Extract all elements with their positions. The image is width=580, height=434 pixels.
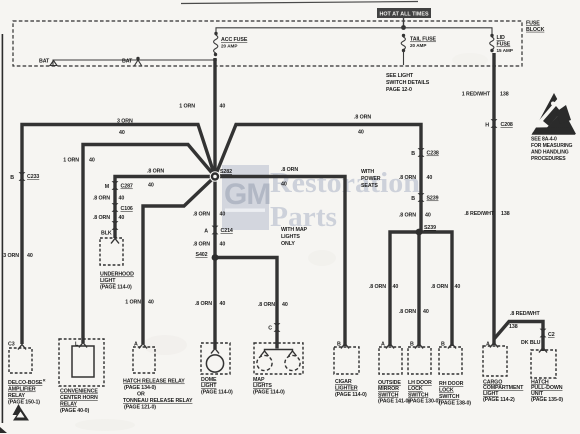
svg-text:40: 40 <box>427 175 433 181</box>
svg-text:(PAGE 150-1): (PAGE 150-1) <box>8 400 40 406</box>
svg-text:.8 RED/WHT: .8 RED/WHT <box>510 311 540 317</box>
svg-text:.8 ORN: .8 ORN <box>431 284 448 290</box>
svg-text:.8 ORN: .8 ORN <box>93 215 110 221</box>
Hatch pull-down unit box <box>531 350 556 378</box>
splice S402 <box>212 254 219 261</box>
svg-text:15 AMP: 15 AMP <box>497 48 513 53</box>
svg-text:S239: S239 <box>427 196 439 202</box>
svg-text:.8 ORN: .8 ORN <box>193 212 210 218</box>
svg-text:40: 40 <box>148 183 154 189</box>
wire 1 ORN to convenience center horn relay <box>83 145 215 344</box>
wire 1 RED/WHT from LID fuse to cargo compartment light <box>492 53 495 345</box>
svg-text:40: 40 <box>220 104 226 110</box>
connector to underhood light <box>112 221 119 230</box>
connector C233 <box>19 172 26 181</box>
svg-text:(PAGE 114-0): (PAGE 114-0) <box>335 392 367 398</box>
wire .8 ORN left arm to underhood light <box>115 177 215 239</box>
svg-text:DK BLU: DK BLU <box>521 340 541 346</box>
svg-text:40: 40 <box>220 242 226 248</box>
svg-text:.8 ORN: .8 ORN <box>399 213 416 219</box>
svg-text:B: B <box>441 342 445 348</box>
fuse block dashed border <box>13 21 522 66</box>
svg-text:M: M <box>105 184 110 190</box>
svg-text:40: 40 <box>119 196 125 202</box>
svg-text:C214: C214 <box>221 228 233 234</box>
svg-text:HOT AT ALL TIMES: HOT AT ALL TIMES <box>379 12 429 18</box>
svg-text:1 ORN: 1 ORN <box>125 300 141 306</box>
svg-text:C: C <box>268 326 272 332</box>
svg-text:BLOCK: BLOCK <box>526 27 545 33</box>
svg-text:DOME: DOME <box>201 377 217 383</box>
svg-text:S402: S402 <box>196 252 208 258</box>
svg-text:OR: OR <box>137 392 145 398</box>
connector C214 <box>212 226 219 235</box>
svg-text:LOCK: LOCK <box>439 388 454 394</box>
svg-text:ONLY: ONLY <box>281 241 295 247</box>
svg-text:C233: C233 <box>27 174 39 180</box>
svg-text:CIGAR: CIGAR <box>335 379 352 385</box>
svg-text:1 RED/WHT: 1 RED/WHT <box>462 92 491 98</box>
svg-text:S239: S239 <box>424 225 436 231</box>
svg-text:.8 ORN: .8 ORN <box>399 309 416 315</box>
wire .8 ORN right arm to cigar lighter <box>215 177 345 347</box>
wire .8 ORN branch S402 to map lights <box>215 258 277 349</box>
svg-text:BAT: BAT <box>122 59 133 65</box>
svg-text:HATCH RELEASE RELAY: HATCH RELEASE RELAY <box>123 379 185 385</box>
svg-text:B: B <box>411 151 415 157</box>
svg-text:ACC FUSE: ACC FUSE <box>221 37 248 43</box>
svg-text:SWITCH DETAILS: SWITCH DETAILS <box>386 80 430 86</box>
wire .8 ORN S239 to outside mirror switch <box>390 232 419 346</box>
svg-text:C106: C106 <box>121 206 133 212</box>
svg-text:RH DOOR: RH DOOR <box>439 381 464 387</box>
svg-text:40: 40 <box>425 213 431 219</box>
svg-text:40: 40 <box>358 130 364 136</box>
svg-text:3 ORN: 3 ORN <box>3 253 19 259</box>
wire 3 ORN to Delco-Bose amplifier relay <box>22 125 215 345</box>
svg-text:40: 40 <box>148 300 154 306</box>
svg-text:BLK: BLK <box>101 231 112 237</box>
svg-text:138: 138 <box>501 211 510 217</box>
svg-text:(PAGE 114-2): (PAGE 114-2) <box>483 397 515 403</box>
EDGES <box>0 2 418 434</box>
Convenience center horn relay outer box <box>59 339 104 386</box>
svg-text:1 ORN: 1 ORN <box>63 158 79 164</box>
svg-text:40: 40 <box>119 215 125 221</box>
svg-text:B: B <box>337 342 341 348</box>
svg-text:LH DOOR: LH DOOR <box>408 380 432 386</box>
svg-text:40: 40 <box>27 253 33 259</box>
svg-text:40: 40 <box>220 212 226 218</box>
svg-text:.8 ORN: .8 ORN <box>354 115 371 121</box>
svg-text:POWER: POWER <box>361 176 381 182</box>
svg-text:CONVENIENCE: CONVENIENCE <box>60 389 98 395</box>
svg-text:OUTSIDE: OUTSIDE <box>378 380 401 386</box>
svg-text:WITH MAP: WITH MAP <box>281 227 308 233</box>
svg-text:C238: C238 <box>427 151 439 157</box>
ESD warning symbol small <box>13 404 25 415</box>
Cigar lighter box <box>334 347 359 374</box>
svg-text:CENTER HORN: CENTER HORN <box>60 395 98 401</box>
svg-text:(PAGE 114-0): (PAGE 114-0) <box>100 285 132 291</box>
svg-text:B: B <box>410 342 414 348</box>
svg-text:.8 ORN: .8 ORN <box>399 175 416 181</box>
wire thin bus to LID fuse <box>216 28 492 34</box>
connector C238 <box>418 148 425 157</box>
svg-text:.8 ORN: .8 ORN <box>281 167 298 173</box>
dome light lamp <box>206 355 223 372</box>
page edge artifact left line <box>1 34 3 423</box>
svg-text:FUSE: FUSE <box>497 42 511 48</box>
WATERMARK <box>222 165 420 233</box>
svg-text:FOR MEASURING: FOR MEASURING <box>531 143 573 149</box>
svg-text:40: 40 <box>455 284 461 290</box>
Outside mirror switch box <box>379 347 402 374</box>
wire .8 ORN down through C214 and S402 to dome light <box>213 177 216 350</box>
svg-text:AND HANDLING: AND HANDLING <box>531 150 569 156</box>
Hatch release relay box <box>133 347 155 373</box>
svg-text:40: 40 <box>423 309 429 315</box>
wire 1 ORN from ACC fuse to splice S282 <box>213 58 216 177</box>
svg-text:LID: LID <box>497 35 506 41</box>
svg-text:.8 ORN: .8 ORN <box>258 302 275 308</box>
svg-text:AMPLIFIER: AMPLIFIER <box>8 387 36 393</box>
svg-text:FUSE: FUSE <box>526 20 540 26</box>
svg-text:20 AMP: 20 AMP <box>410 43 426 48</box>
svg-text:(PAGE 130-0): (PAGE 130-0) <box>408 399 440 405</box>
svg-text:138: 138 <box>509 324 518 330</box>
svg-text:GM: GM <box>224 178 270 211</box>
Delco-Bose amplifier relay box <box>9 348 32 373</box>
svg-text:.8 ORN: .8 ORN <box>93 196 110 202</box>
svg-text:TAIL FUSE: TAIL FUSE <box>410 37 437 43</box>
wire 1 ORN to hatch release relay <box>143 177 215 345</box>
svg-text:SEE LIGHT: SEE LIGHT <box>386 73 414 79</box>
junction ACC fuse to BAT bus <box>213 58 217 62</box>
svg-text:B: B <box>10 175 14 181</box>
svg-text:C2: C2 <box>548 332 555 338</box>
Dome light box <box>201 343 230 374</box>
svg-text:(PAGE 141-0): (PAGE 141-0) <box>378 399 410 405</box>
svg-text:C287: C287 <box>121 184 133 190</box>
svg-text:.8 ORN: .8 ORN <box>369 284 386 290</box>
svg-text:.8 ORN: .8 ORN <box>193 242 210 248</box>
svg-text:.8 ORN: .8 ORN <box>147 169 164 175</box>
svg-text:3 ORN: 3 ORN <box>117 119 133 125</box>
Cargo compartment light box <box>483 346 507 376</box>
svg-text:.8 RED/WHT: .8 RED/WHT <box>464 211 494 217</box>
svg-text:BAT: BAT <box>39 59 50 65</box>
svg-text:40: 40 <box>220 301 226 307</box>
HOT AT ALL TIMES box <box>377 8 431 18</box>
svg-text:(PAGE 114-0): (PAGE 114-0) <box>201 389 233 395</box>
wire .8 ORN S239 to LH door lock switch <box>417 232 420 346</box>
svg-text:40: 40 <box>282 302 288 308</box>
svg-text:(PAGE 135-0): (PAGE 135-0) <box>531 397 563 403</box>
svg-text:40: 40 <box>119 130 125 136</box>
svg-text:138: 138 <box>500 92 509 98</box>
svg-text:S282: S282 <box>220 169 232 175</box>
Convenience center horn relay inner box <box>72 346 94 377</box>
svg-text:RELAY: RELAY <box>8 393 26 399</box>
fuse ACC FUSE 20 AMP <box>214 32 217 35</box>
svg-text:40: 40 <box>89 158 95 164</box>
fuse LID FUSE 15 AMP <box>490 34 493 37</box>
svg-text:MAP: MAP <box>253 377 265 383</box>
RH door lock switch box <box>439 347 462 374</box>
LH door lock switch box <box>408 347 431 374</box>
svg-text:DELCO-BOSE: DELCO-BOSE <box>8 380 43 386</box>
connector C on map lights wire <box>274 323 281 332</box>
ESD warning symbol <box>532 93 576 134</box>
BOXES <box>9 238 556 421</box>
svg-text:(PAGE 40-0): (PAGE 40-0) <box>60 408 89 414</box>
connector C2 <box>540 329 547 338</box>
connector C106 <box>112 203 119 212</box>
page edge artifact top line <box>181 2 418 4</box>
splice S282 <box>210 171 221 182</box>
wire BAT bus <box>53 60 215 66</box>
svg-text:WITH: WITH <box>361 169 374 175</box>
svg-text:MIRROR: MIRROR <box>378 386 399 392</box>
connector C287 <box>112 181 119 190</box>
GM Restoration Parts watermark logo box <box>222 165 269 230</box>
svg-text:A: A <box>204 229 208 235</box>
svg-text:20 AMP: 20 AMP <box>221 44 237 49</box>
wire .8 ORN upper branch to C238 and splice S239 <box>215 125 421 233</box>
svg-text:PAGE 12-0: PAGE 12-0 <box>386 87 412 93</box>
svg-text:SWITCH: SWITCH <box>408 392 429 398</box>
svg-text:LIGHT: LIGHT <box>201 383 217 389</box>
svg-text:(PAGE 114-0): (PAGE 114-0) <box>253 389 285 395</box>
svg-text:H: H <box>485 123 489 129</box>
svg-text:SEATS: SEATS <box>361 183 378 189</box>
connector S239 upper <box>418 193 425 202</box>
svg-text:(PAGE 134-0): (PAGE 134-0) <box>124 385 156 391</box>
svg-text:TONNEAU RELEASE RELAY: TONNEAU RELEASE RELAY <box>123 398 193 404</box>
svg-text:.8 ORN: .8 ORN <box>195 301 212 307</box>
fuse TAIL FUSE 20 AMP <box>402 34 405 37</box>
wire .8 RED/WHT branch to hatch pull-down unit <box>494 322 543 352</box>
CONNECTORS <box>19 119 547 337</box>
page corner mark bottom-left <box>0 427 7 433</box>
svg-text:LIGHT: LIGHT <box>100 278 116 284</box>
Underhood light box <box>100 238 123 265</box>
svg-text:LOCK: LOCK <box>408 386 423 392</box>
node feed from HOT AT ALL TIMES <box>401 25 406 30</box>
Map lights box <box>254 343 303 374</box>
svg-text:(PAGE 121-0): (PAGE 121-0) <box>124 405 156 411</box>
splice S239 <box>416 229 423 236</box>
FUSEBLOCK <box>13 8 576 162</box>
svg-text:LIGHTER: LIGHTER <box>335 386 358 392</box>
map lights split <box>265 350 293 352</box>
svg-text:40: 40 <box>281 182 287 188</box>
svg-text:LIGHTS: LIGHTS <box>281 234 300 240</box>
svg-text:C208: C208 <box>501 122 513 128</box>
svg-text:LIGHTS: LIGHTS <box>253 383 272 389</box>
svg-text:(PAGE 138-0): (PAGE 138-0) <box>439 401 471 407</box>
map light lamp 2 <box>285 355 300 370</box>
svg-text:A: A <box>381 342 385 348</box>
map light lamp 1 <box>257 355 272 370</box>
svg-text:40: 40 <box>393 284 399 290</box>
svg-text:PROCEDURES: PROCEDURES <box>531 156 566 162</box>
svg-text:SEE 8A-4-0: SEE 8A-4-0 <box>531 137 557 143</box>
svg-text:A: A <box>134 342 138 348</box>
svg-text:A: A <box>486 342 490 348</box>
svg-text:RELAY: RELAY <box>60 402 78 408</box>
wire .8 ORN S239 to RH door lock switch <box>419 232 452 346</box>
svg-text:SWITCH: SWITCH <box>439 394 460 400</box>
svg-text:UNDERHOOD: UNDERHOOD <box>100 272 134 278</box>
svg-text:C3: C3 <box>8 342 15 348</box>
connector C208 <box>491 119 498 128</box>
svg-text:SWITCH: SWITCH <box>378 392 399 398</box>
svg-text:1 ORN: 1 ORN <box>179 104 195 110</box>
svg-text:B: B <box>411 196 415 202</box>
